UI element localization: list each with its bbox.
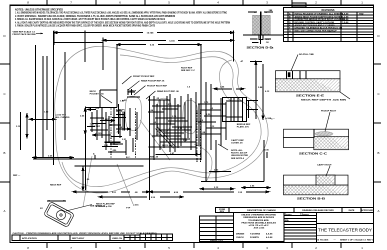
section B-B strip (284, 163, 349, 200)
svg-text:MISC DIM CORRECTIONS PER MARKU: MISC DIM CORRECTIONS PER MARKUP (295, 29, 338, 32)
svg-text:T.Downs: T.Downs (300, 214, 310, 216)
svg-text:B: B (4, 151, 6, 155)
left dim x27 vertical (20, 112, 28, 150)
zone numbers bottom (27, 246, 363, 250)
zone ticks bottom (47, 243, 341, 249)
svg-text:SECTION B-B: SECTION B-B (297, 198, 325, 201)
svg-text:7-9-98: 7-9-98 (342, 22, 349, 24)
svg-text:NECK REF: NECK REF (50, 185, 62, 187)
center cluster horizontals (148, 100, 226, 155)
svg-text:TOLERANCES ARE:: TOLERANCES ARE: (248, 219, 269, 222)
svg-text:SEE NOTE 4: SEE NOTE 4 (231, 157, 245, 160)
svg-text:REV: REV (220, 211, 225, 213)
svg-text:SECTION C-C: SECTION C-C (299, 153, 327, 156)
svg-text:D: D (377, 34, 379, 38)
svg-text:PARTS LIST: PARTS LIST (210, 239, 223, 242)
svg-text:R.SMITH: R.SMITH (250, 237, 259, 239)
svg-text:12.50: 12.50 (169, 40, 175, 42)
notes block (15, 9, 230, 28)
svg-text:PLATE .075: PLATE .075 (237, 126, 250, 129)
zone ticks right and letters (374, 64, 382, 182)
svg-text:T.DOWNS: T.DOWNS (250, 234, 261, 236)
svg-text:A: A (4, 209, 6, 213)
pickup rout outlines (light) (125, 96, 212, 182)
svg-text:G: G (289, 30, 291, 32)
upper right small dims (206, 82, 244, 100)
svg-text:FRONT FACE SHOWN: FRONT FACE SHOWN (13, 33, 36, 36)
svg-text:D: D (3, 34, 5, 38)
top dimension 3 (54, 42, 103, 44)
svg-text:REF —: REF — (13, 175, 21, 177)
svg-text:2.125: 2.125 (96, 133, 102, 135)
svg-text:NO-PULL TAB: NO-PULL TAB (299, 53, 314, 56)
svg-text:APPLICATION: APPLICATION (22, 237, 37, 240)
view ref arrow (36, 32, 43, 34)
svg-text:REF .38: REF .38 (150, 157, 159, 159)
svg-text:REVISIONS: REVISIONS (321, 9, 334, 12)
left cluster extras (87, 108, 137, 155)
svg-text:CAVITY ROUT: CAVITY ROUT (317, 163, 332, 166)
svg-text:THE TELECASTER BODY: THE TELECASTER BODY (318, 228, 372, 233)
svg-text:TYP: TYP (126, 208, 131, 210)
svg-text:TD-0001: TD-0001 (320, 239, 329, 241)
svg-text:FRONT PICKUP REF: FRONT PICKUP REF (133, 76, 155, 78)
tilted plate detail (44, 202, 75, 228)
pickup rout labels (133, 76, 179, 93)
left mid texts (56, 115, 70, 120)
svg-text:REAR PICKUP REF 2X: REAR PICKUP REF 2X (141, 80, 165, 83)
svg-text:TBD: TBD (359, 14, 364, 16)
svg-text:A: A (378, 209, 380, 213)
svg-text:INITIAL RELEASE OF DRAWING, AL: INITIAL RELEASE OF DRAWING, ALL SHEETS (295, 13, 344, 16)
svg-text:CHECK: CHECK (236, 237, 244, 239)
body outline outer (light) (55, 46, 268, 193)
svg-text:6-1-98: 6-1-98 (342, 19, 349, 21)
title block header row (215, 207, 373, 212)
mini grid (140, 234, 172, 240)
svg-text:4 HOLES ⌀.196: 4 HOLES ⌀.196 (96, 205, 112, 208)
svg-text:C: C (3, 92, 5, 96)
svg-text:.XXX ±.005: .XXX ±.005 (253, 228, 265, 230)
svg-text:NECK REF DEPTH .625 MIN: NECK REF DEPTH .625 MIN (301, 100, 347, 102)
svg-text:4-8-98: 4-8-98 (342, 13, 349, 16)
small box above rev table (292, 3, 306, 7)
svg-text:USED ON: USED ON (112, 238, 122, 240)
bottom strip (12, 235, 140, 241)
svg-text:DRAWN: DRAWN (236, 233, 245, 236)
bridge diagonal (155, 127, 175, 148)
svg-text:SECTION E-E: SECTION E-E (296, 94, 325, 97)
svg-text:SHEET 1 OF 1 SCALE 1:1 REV G: SHEET 1 OF 1 SCALE 1:1 REV G (340, 238, 374, 241)
svg-text:SECTION D-D: SECTION D-D (247, 47, 273, 50)
svg-text:4-9-98: 4-9-98 (266, 236, 273, 239)
neck pocket corner (85, 90, 117, 107)
svg-text:PICKUP ROUT REF: PICKUP ROUT REF (147, 85, 168, 87)
small dim above bottom (104, 142, 120, 144)
datum flag (94, 155, 96, 159)
svg-text:5. FINISH: SEALER PLUS NITROCE: 5. FINISH: SEALER PLUS NITROCELLULOSE LA… (15, 25, 155, 28)
svg-text:UPDATED TOLERANCE BLOCK PER EC: UPDATED TOLERANCE BLOCK PER ECO 114 (295, 27, 343, 30)
svg-text:REAR ROUT REF .08: REAR ROUT REF .08 (157, 90, 179, 93)
bottom right rectangle (200, 140, 270, 190)
svg-text:N/A: N/A (285, 219, 289, 222)
left dim y119 (30, 118, 56, 120)
rect top dim (117, 44, 201, 160)
right lower note block (231, 139, 249, 160)
neck pocket vertical dim x85 (84, 108, 86, 190)
title bottom row (318, 238, 375, 241)
horn arc (light) (219, 60, 232, 101)
top dimension 1 (54, 31, 234, 62)
tolerance block (234, 213, 284, 242)
bottom long dims (73, 191, 269, 198)
neck pocket label (90, 91, 105, 96)
svg-text:5-2-98: 5-2-98 (342, 16, 349, 18)
svg-text:15.748: 15.748 (147, 32, 154, 35)
svg-text:NECK PLATE REF: NECK PLATE REF (96, 203, 115, 206)
svg-text:NOTE: ALL: NOTE: ALL (231, 149, 243, 152)
svg-text:DIMENSIONS ARE IN INCHES: DIMENSIONS ARE IN INCHES (243, 216, 274, 219)
svg-text:B.C.: B.C. (126, 157, 131, 159)
leader diagonals (light) (83, 120, 170, 207)
svg-text:Drawn: Drawn (285, 214, 292, 216)
svg-text:APPROVED: APPROVED (361, 209, 374, 212)
neck pocket cluster (90, 89, 140, 150)
svg-text:CORRECTED BRIDGE PICKUP ROUT L: CORRECTED BRIDGE PICKUP ROUT LOCATION (295, 18, 346, 21)
section D-D assembly (243, 10, 283, 50)
center cluster verticals (150, 92, 249, 200)
svg-text:.125 REF: .125 REF (127, 91, 137, 93)
svg-text:REVISED CONTROL CAVITY OUTLINE: REVISED CONTROL CAVITY OUTLINE (295, 21, 335, 24)
right vertical dims (250, 62, 264, 120)
view ref label (13, 30, 36, 35)
svg-text:B: B (378, 151, 380, 155)
svg-text:FRACTIONS DECIMALS ANGLES: FRACTIONS DECIMALS ANGLES (241, 221, 276, 224)
left vertical extension lines (36, 31, 86, 166)
small texts under bottom line (50, 185, 139, 210)
svg-text:1.692: 1.692 (103, 119, 109, 121)
svg-text:ADDED SECTION B-B AND C-C VIEW: ADDED SECTION B-B AND C-C VIEWS (295, 24, 336, 27)
svg-text:DRAWING RELEASE RECORD: DRAWING RELEASE RECORD (302, 209, 334, 212)
svg-text:DESCRIPTION OF CHANGE: DESCRIPTION OF CHANGE (247, 209, 276, 212)
svg-text:CAVITY REF: CAVITY REF (231, 139, 244, 142)
zone ticks top (47, 0, 341, 5)
title box (316, 224, 373, 236)
parts table (199, 216, 233, 242)
svg-text:NECK REF: NECK REF (162, 145, 174, 147)
svg-text:±.015: ±.015 (133, 205, 139, 207)
svg-text:4-8-98: 4-8-98 (266, 233, 273, 236)
centerline dotted (110, 108, 112, 159)
right bridge box (222, 98, 258, 122)
section E-E strip (276, 53, 351, 102)
revision table (284, 8, 374, 42)
svg-text:C: C (377, 92, 379, 96)
svg-text:PICKUP ROUT: PICKUP ROUT (321, 111, 337, 113)
svg-text:R.25: R.25 (116, 110, 121, 112)
vertical dim lower left (33, 157, 84, 190)
zone numbers top (27, 1, 363, 5)
svg-text:ALL CURVES: ALL CURVES (56, 116, 70, 119)
svg-text:NEXT ASSY: NEXT ASSY (72, 237, 85, 240)
svg-text:POCKET 2.56: POCKET 2.56 (90, 94, 105, 96)
svg-text:ADDED NECK POCKET DEPTH DIM &: ADDED NECK POCKET DEPTH DIM & NOTE 4 (295, 15, 343, 18)
svg-text:DATE: DATE (349, 209, 355, 212)
title block middle column rows (284, 213, 317, 243)
zone ticks left and letters (0, 64, 10, 182)
svg-text:SEE SEC C-C: SEE SEC C-C (181, 70, 195, 72)
svg-text:COVER .09: COVER .09 (231, 143, 243, 145)
section C-C strip (271, 111, 349, 156)
long mid horizontals (33, 159, 201, 166)
top dimension 2 (103, 38, 234, 71)
